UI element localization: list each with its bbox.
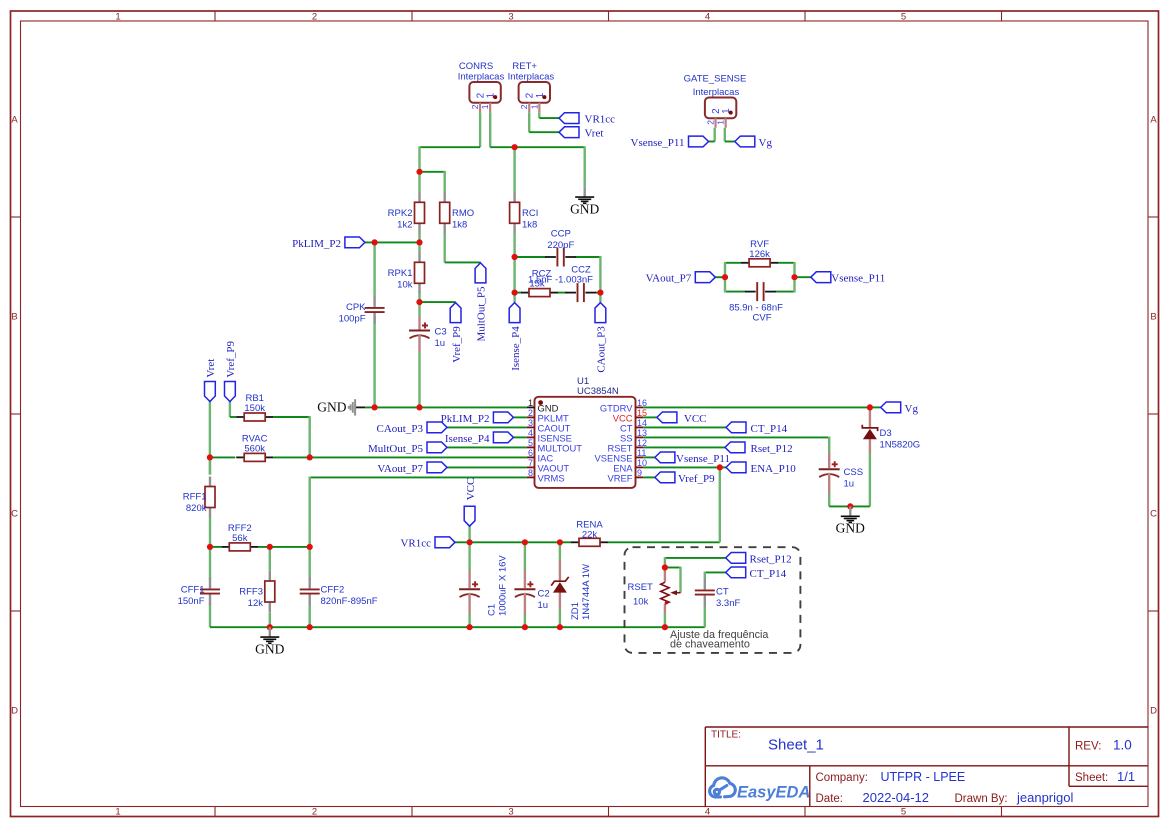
- svg-text:1: 1: [528, 398, 533, 408]
- svg-text:10k: 10k: [633, 597, 649, 608]
- svg-text:VAout_P7: VAout_P7: [646, 273, 692, 285]
- node PkLIM_P2 (left): [345, 237, 365, 248]
- junction at (524.9,542.3): [522, 539, 528, 545]
- wire C2 column: [524, 541, 526, 571]
- svg-text:C2: C2: [538, 589, 550, 600]
- connector GATE_SENSE Interplacas: [705, 98, 736, 119]
- ground (under CSS/D3 rail): [849, 506, 851, 515]
- svg-text:VR1cc: VR1cc: [400, 538, 431, 550]
- pin 7 VAOUT: [527, 466, 535, 468]
- svg-text:1: 1: [115, 12, 120, 23]
- svg-text:C3: C3: [435, 327, 447, 338]
- node Vsense_P11 (mid right): [811, 272, 831, 283]
- capacitor C2 1u: [514, 588, 535, 590]
- pin 11 VSENSE: [636, 456, 644, 458]
- pin 4 ISENSE: [527, 436, 535, 438]
- svg-text:9: 9: [637, 468, 642, 478]
- svg-text:1.0: 1.0: [1113, 738, 1132, 753]
- junction at (514.6,147.2): [511, 144, 517, 150]
- wire ZD1 column: [559, 541, 561, 561]
- svg-text:Date:: Date:: [816, 793, 844, 805]
- wire RSET wiper: [665, 567, 681, 569]
- node Vref_P9 (left column): [225, 382, 236, 402]
- junction at (524.9,627.2): [522, 624, 528, 630]
- wire RFF2 row: [210, 546, 221, 548]
- node VAout_P7 (IC pin7): [427, 462, 447, 473]
- junction at (419.5,171.8): [416, 169, 422, 175]
- svg-text:1u: 1u: [844, 479, 855, 490]
- svg-text:Vsense_P11: Vsense_P11: [831, 273, 885, 285]
- svg-text:A: A: [11, 115, 18, 126]
- junction at (469.6,542.3): [467, 539, 473, 545]
- svg-text:EasyEDA: EasyEDA: [737, 784, 810, 802]
- wire bottom GND rail: [210, 626, 705, 628]
- svg-text:Sheet:: Sheet:: [1075, 772, 1108, 784]
- svg-text:B: B: [1150, 312, 1156, 323]
- svg-text:Vsense_P11: Vsense_P11: [631, 137, 685, 149]
- svg-text:RET+: RET+: [512, 61, 537, 72]
- svg-text:de chaveamento: de chaveamento: [670, 639, 750, 651]
- node PkLIM_P2 (IC pin2): [493, 412, 513, 423]
- junction at (719.8,467.4): [717, 464, 723, 470]
- node Isense_P4 (IC pin4): [493, 432, 513, 443]
- svg-text:10k: 10k: [397, 280, 413, 291]
- resistor RPK1 10k: [418, 252, 420, 262]
- svg-text:3: 3: [528, 418, 533, 428]
- svg-text:RFF1: RFF1: [183, 492, 207, 503]
- svg-text:Vret: Vret: [205, 359, 217, 378]
- svg-text:RFF3: RFF3: [239, 587, 263, 598]
- wire IC pin wires left: [513, 416, 526, 418]
- svg-text:560k: 560k: [244, 443, 265, 454]
- svg-text:1u: 1u: [435, 338, 446, 349]
- junction at (664.9,567.5): [662, 564, 668, 570]
- pin 3 CAOUT: [527, 426, 535, 428]
- svg-text:4: 4: [528, 428, 533, 438]
- node Vret (left column): [205, 382, 216, 402]
- svg-text:15: 15: [637, 408, 647, 418]
- wire Vref_P9 to RB1: [229, 402, 231, 418]
- svg-text:Vref_P9: Vref_P9: [678, 473, 715, 485]
- svg-text:12k: 12k: [248, 598, 264, 609]
- svg-text:Vsense_P11: Vsense_P11: [676, 453, 730, 465]
- svg-text:2: 2: [312, 807, 317, 818]
- junction at (309.7,546.9): [307, 544, 313, 550]
- pin 2 PKLMT: [527, 416, 535, 418]
- wire RB1 right down: [273, 416, 310, 418]
- wire SS to CSS: [828, 437, 830, 453]
- capacitor CT 3.3nF: [704, 578, 706, 589]
- node VCC (IC pin15): [657, 412, 677, 423]
- resistor RFF3 12k: [269, 571, 271, 581]
- resistor RPK2 1k2: [418, 192, 420, 202]
- node Vg (right of pin16): [881, 402, 901, 413]
- svg-text:1: 1: [115, 807, 120, 818]
- svg-text:5: 5: [901, 807, 906, 818]
- junction at (600.4,292.6): [597, 290, 603, 296]
- wire RSET column: [664, 612, 666, 627]
- node Vg (top): [735, 136, 755, 147]
- pin 1 GND: [527, 406, 535, 408]
- svg-text:1k8: 1k8: [522, 220, 537, 231]
- svg-text:CAout_P3: CAout_P3: [596, 326, 608, 373]
- svg-text:CT_P14: CT_P14: [751, 423, 788, 435]
- capacitor CSS 1u: [819, 468, 840, 470]
- pin 10 ENA: [636, 466, 644, 468]
- wire MultOut row: [444, 233, 446, 262]
- connector RET+ Interplacas: [519, 82, 550, 103]
- node Vsense_P11 (top): [689, 136, 709, 147]
- svg-text:14: 14: [637, 418, 647, 428]
- wire RVAC row to IAC pin6: [210, 456, 235, 458]
- resistor RVAC 560k: [236, 456, 244, 458]
- wire GND rail y407: [356, 406, 366, 408]
- resistor RCZ 15k: [521, 292, 529, 294]
- capacitor C1 1000uF X 16V: [459, 588, 480, 590]
- svg-text:13: 13: [637, 428, 647, 438]
- svg-text:Interplacas: Interplacas: [508, 72, 555, 83]
- svg-text:ENA_P10: ENA_P10: [751, 463, 797, 475]
- svg-text:12: 12: [637, 438, 647, 448]
- svg-text:1: 1: [480, 104, 490, 109]
- svg-text:3.3nF: 3.3nF: [716, 598, 740, 609]
- svg-text:VAout_P7: VAout_P7: [377, 463, 423, 475]
- wire RPK1 to C3 / Vref_P9: [418, 292, 420, 317]
- wire Rset_P12 box: [665, 557, 726, 559]
- capacitor C3 1u: [409, 330, 430, 332]
- junction at (309.7,457.4): [307, 454, 313, 460]
- svg-text:4: 4: [705, 807, 710, 818]
- schottky diode D3 1N5820G: [869, 407, 871, 429]
- svg-text:1u: 1u: [538, 600, 549, 611]
- wire RCI to CCP/RCZ rows: [513, 233, 515, 302]
- connector CONRS Interplacas: [469, 82, 500, 103]
- svg-text:150k: 150k: [244, 403, 265, 414]
- svg-text:2: 2: [705, 120, 715, 125]
- node Vsense_P11 (IC pin11): [655, 452, 675, 463]
- svg-text:UC3854N: UC3854N: [577, 386, 619, 397]
- svg-text:CPK: CPK: [346, 302, 366, 313]
- op-amp/PFC controller U1 UC3854N: [535, 397, 636, 488]
- wire RVF/CVF loop: [725, 262, 742, 264]
- svg-text:3: 3: [508, 12, 513, 23]
- resistor RFF1 820k: [209, 477, 211, 487]
- svg-text:2: 2: [519, 104, 529, 109]
- junction at (514.6,292.6): [511, 290, 517, 296]
- resistor RMO 1k8: [444, 192, 446, 202]
- wire RET+ to VR1cc/Vret: [538, 112, 540, 118]
- wire IC pin wires right: [643, 406, 870, 408]
- svg-text:220pF: 220pF: [547, 240, 574, 251]
- svg-text:CFF1: CFF1: [181, 585, 205, 596]
- svg-text:C: C: [1150, 509, 1157, 520]
- svg-text:1N5820G: 1N5820G: [880, 440, 921, 451]
- wire C1 column: [468, 541, 470, 571]
- wire GATE_SENSE: [714, 128, 716, 142]
- node MultOut_P5 (IC pin5): [427, 442, 447, 453]
- svg-text:PkLIM_P2: PkLIM_P2: [441, 413, 490, 425]
- wire RPK2-RPK1: [418, 233, 420, 253]
- svg-text:Company:: Company:: [816, 772, 868, 784]
- node MultOut_P5 (under RMO): [475, 263, 486, 283]
- svg-text:1/1: 1/1: [1117, 769, 1135, 784]
- svg-text:RPK2: RPK2: [388, 208, 413, 219]
- junction at (850.3,506.4): [847, 503, 853, 509]
- svg-text:56k: 56k: [232, 533, 248, 544]
- svg-text:1: 1: [716, 120, 726, 125]
- zener diode ZD1 1N4744A 1W: [559, 561, 561, 581]
- svg-text:ZD1: ZD1: [570, 602, 581, 620]
- svg-text:D: D: [1150, 706, 1157, 717]
- node Rset_P12 (dashed box): [726, 553, 746, 564]
- svg-text:VRMS: VRMS: [538, 473, 565, 484]
- svg-text:16: 16: [637, 398, 647, 408]
- junction at (374.6,242.4): [372, 239, 378, 245]
- svg-text:Vref_P9: Vref_P9: [451, 326, 463, 363]
- svg-text:Vret: Vret: [585, 128, 604, 140]
- svg-text:CAout_P3: CAout_P3: [377, 423, 424, 435]
- svg-text:RMO: RMO: [452, 208, 474, 219]
- svg-text:VREF: VREF: [607, 473, 632, 484]
- pin 12 RSET: [636, 446, 644, 448]
- svg-text:2022-04-12: 2022-04-12: [863, 790, 930, 805]
- svg-text:D: D: [11, 706, 18, 717]
- svg-text:Sheet_1: Sheet_1: [768, 737, 824, 754]
- wire: [490, 146, 585, 148]
- junction at (725,277.2): [722, 274, 728, 280]
- node VR1cc (top): [559, 113, 579, 124]
- junction at (559.9,542.3): [557, 539, 563, 545]
- pin 9 VREF: [636, 476, 644, 478]
- svg-text:2: 2: [312, 12, 317, 23]
- svg-text:C1: C1: [487, 604, 498, 616]
- ground (under RFF3): [269, 627, 271, 636]
- svg-text:1k8: 1k8: [452, 220, 467, 231]
- junction at (664.9,627.2): [662, 624, 668, 630]
- svg-text:GND: GND: [317, 400, 346, 415]
- capacitor CVF 85.9n - 68nF: [745, 291, 756, 293]
- node CT_P14 (dashed box): [726, 567, 746, 578]
- svg-text:Drawn By:: Drawn By:: [955, 793, 1008, 805]
- junction at (514.6,257): [511, 254, 517, 260]
- svg-text:MultOut_P5: MultOut_P5: [368, 443, 424, 455]
- svg-text:1: 1: [529, 104, 539, 109]
- svg-text:10: 10: [637, 458, 647, 468]
- junction at (469.6,627.2): [467, 624, 473, 630]
- junction at (269.8,627.2): [267, 624, 273, 630]
- junction at (419.5,302.1): [416, 299, 422, 305]
- ground (top, under RET+ net): [584, 187, 586, 196]
- resistor RCI 1k8: [513, 192, 515, 202]
- wire Vret column: [209, 402, 211, 475]
- svg-text:D3: D3: [880, 428, 892, 439]
- pin 6 IAC: [527, 456, 535, 458]
- wire VR1cc row: [455, 541, 572, 543]
- node Rset_P12 (IC pin12): [725, 442, 745, 453]
- wire: [420, 171, 445, 173]
- resistor RB1 150k: [236, 416, 244, 418]
- annotation dashed box: Ajuste da frequencia: [625, 547, 801, 653]
- svg-text:1k2: 1k2: [397, 220, 412, 231]
- svg-text:3: 3: [508, 807, 513, 818]
- svg-text:A: A: [1150, 115, 1157, 126]
- pin 14 CT: [636, 426, 644, 428]
- capacitor CCP 220pF: [545, 256, 556, 258]
- wire RCZ/CCZ row: [558, 292, 567, 294]
- svg-text:B: B: [11, 312, 17, 323]
- svg-text:VR1cc: VR1cc: [585, 114, 616, 126]
- svg-text:126k: 126k: [749, 249, 770, 260]
- svg-text:VCC: VCC: [465, 478, 477, 501]
- svg-text:Rset_P12: Rset_P12: [751, 443, 793, 455]
- node CT_P14 (IC pin14): [726, 422, 746, 433]
- svg-text:Interplacas: Interplacas: [458, 72, 505, 83]
- node VR1cc (left of C1): [435, 537, 455, 548]
- junction at (210,546.9): [207, 544, 213, 550]
- svg-text:RPK1: RPK1: [388, 268, 413, 279]
- svg-text:REV:: REV:: [1075, 741, 1101, 753]
- title block: [705, 727, 1148, 807]
- resistor RVF 126k: [741, 262, 749, 264]
- svg-text:2: 2: [528, 408, 533, 418]
- svg-text:CFF2: CFF2: [321, 585, 345, 596]
- wire VCC flag down: [468, 526, 470, 542]
- pin 5 MULTOUT: [527, 446, 535, 448]
- svg-text:150nF: 150nF: [178, 596, 205, 607]
- svg-text:Rset_P12: Rset_P12: [750, 553, 792, 565]
- wire CCZ right vertical: [599, 256, 601, 302]
- svg-text:GND: GND: [836, 521, 865, 536]
- svg-text:CT: CT: [716, 586, 729, 597]
- svg-text:7: 7: [528, 458, 533, 468]
- svg-text:1.5nF -1.003nF: 1.5nF -1.003nF: [528, 274, 593, 285]
- svg-text:PkLIM_P2: PkLIM_P2: [292, 238, 341, 250]
- wire PkLIM row: [365, 241, 420, 243]
- svg-text:5: 5: [528, 438, 533, 448]
- svg-text:RCI: RCI: [522, 208, 538, 219]
- svg-text:820nF-895nF: 820nF-895nF: [321, 596, 378, 607]
- svg-text:VCC: VCC: [684, 413, 707, 425]
- resistor RFF2 56k: [221, 546, 229, 548]
- svg-text:6: 6: [528, 448, 533, 458]
- svg-text:100pF: 100pF: [339, 314, 366, 325]
- svg-text:Vg: Vg: [759, 137, 773, 149]
- svg-text:8: 8: [528, 468, 533, 478]
- capacitor CFF1 150nF: [209, 577, 211, 588]
- svg-text:CVF: CVF: [753, 313, 772, 324]
- junction at (269.8,546.9): [267, 544, 273, 550]
- pin 13 SS: [636, 436, 644, 438]
- node Vret (top): [559, 127, 579, 138]
- node ENA_P10 (IC pin10): [726, 462, 746, 473]
- svg-text:MultOut_P5: MultOut_P5: [476, 286, 488, 342]
- wire CCP row: [515, 256, 546, 258]
- junction at (419.5,242.4): [416, 239, 422, 245]
- EasyEDA logo: [710, 778, 736, 797]
- junction at (869.9,407.4): [867, 404, 873, 410]
- pin 16 GTDRV: [636, 406, 644, 408]
- junction at (559.9,627.2): [557, 624, 563, 630]
- svg-text:C: C: [11, 509, 18, 520]
- pin 15 VCC: [636, 416, 644, 418]
- svg-text:UTFPR - LPEE: UTFPR - LPEE: [881, 770, 966, 784]
- node VAout_P7 (mid right): [695, 272, 715, 283]
- junction at (374.6,407.4): [372, 404, 378, 410]
- svg-text:1000uF X 16V: 1000uF X 16V: [498, 555, 509, 616]
- svg-text:4: 4: [705, 12, 710, 23]
- svg-text:11: 11: [637, 448, 646, 458]
- svg-text:GATE_SENSE: GATE_SENSE: [684, 74, 747, 85]
- node Vref_P9 (under RPK1): [450, 303, 461, 323]
- resistor RENA 22k: [571, 541, 579, 543]
- svg-text:CONRS: CONRS: [459, 61, 493, 72]
- junction at (209.9,457.4): [207, 454, 213, 460]
- svg-text:CT_P14: CT_P14: [750, 568, 787, 580]
- pin-1 marker dot: [538, 400, 543, 405]
- svg-text:TITLE:: TITLE:: [711, 730, 741, 741]
- capacitor CPK 100pF: [373, 296, 375, 307]
- svg-text:820k: 820k: [186, 503, 207, 514]
- svg-text:Isense_P4: Isense_P4: [510, 326, 522, 371]
- junction at (794.5,277.2): [791, 274, 797, 280]
- capacitor CFF2 820nF-895nF: [309, 577, 311, 588]
- svg-text:22k: 22k: [582, 530, 598, 541]
- wire CSS/D3 gnd rail: [829, 505, 870, 507]
- wire VRMS pin8 row: [310, 476, 527, 478]
- node CAout_P3 (under CCZ): [595, 303, 606, 323]
- svg-text:GND: GND: [570, 202, 599, 217]
- potentiometer RSET 10k: [664, 569, 666, 582]
- svg-text:GND: GND: [255, 642, 284, 657]
- svg-text:jeanprigol: jeanprigol: [1016, 790, 1073, 805]
- svg-text:CCP: CCP: [551, 229, 571, 240]
- node CAout_P3 (IC pin3): [427, 422, 447, 433]
- wire: [479, 112, 481, 147]
- wire CT_P14 box: [705, 571, 726, 573]
- svg-text:2: 2: [470, 104, 480, 109]
- svg-text:Isense_P4: Isense_P4: [445, 433, 490, 445]
- wire RFF3 column: [269, 546, 271, 571]
- svg-text:Vref_P9: Vref_P9: [225, 340, 237, 377]
- node VCC (above C1): [464, 506, 475, 526]
- wire RFF1 column: [209, 457, 211, 475]
- svg-text:CSS: CSS: [844, 467, 864, 478]
- wire CFF1 column: [209, 546, 211, 580]
- wire CFF2 column: [309, 546, 311, 580]
- svg-text:5: 5: [901, 12, 906, 23]
- junction at (309.7,627.2): [307, 624, 313, 630]
- wire RENA to ENA junction: [719, 467, 721, 543]
- svg-text:Interplacas: Interplacas: [693, 87, 740, 98]
- wire CPK branch: [373, 242, 375, 297]
- wire D3 column: [869, 453, 871, 507]
- svg-text:Vg: Vg: [905, 403, 919, 415]
- svg-text:RSET: RSET: [628, 582, 654, 593]
- capacitor CCZ 1.5nF -1.003nF: [565, 292, 576, 294]
- node Isense_P4 (under RCZ): [509, 303, 520, 323]
- ground (net flag, left of IC): [354, 399, 356, 415]
- node Vref_P9 (IC pin9): [655, 472, 675, 483]
- svg-text:1N4744A 1W: 1N4744A 1W: [581, 564, 592, 620]
- junction at (419.5,407.4): [416, 404, 422, 410]
- pin 8 VRMS: [527, 476, 535, 478]
